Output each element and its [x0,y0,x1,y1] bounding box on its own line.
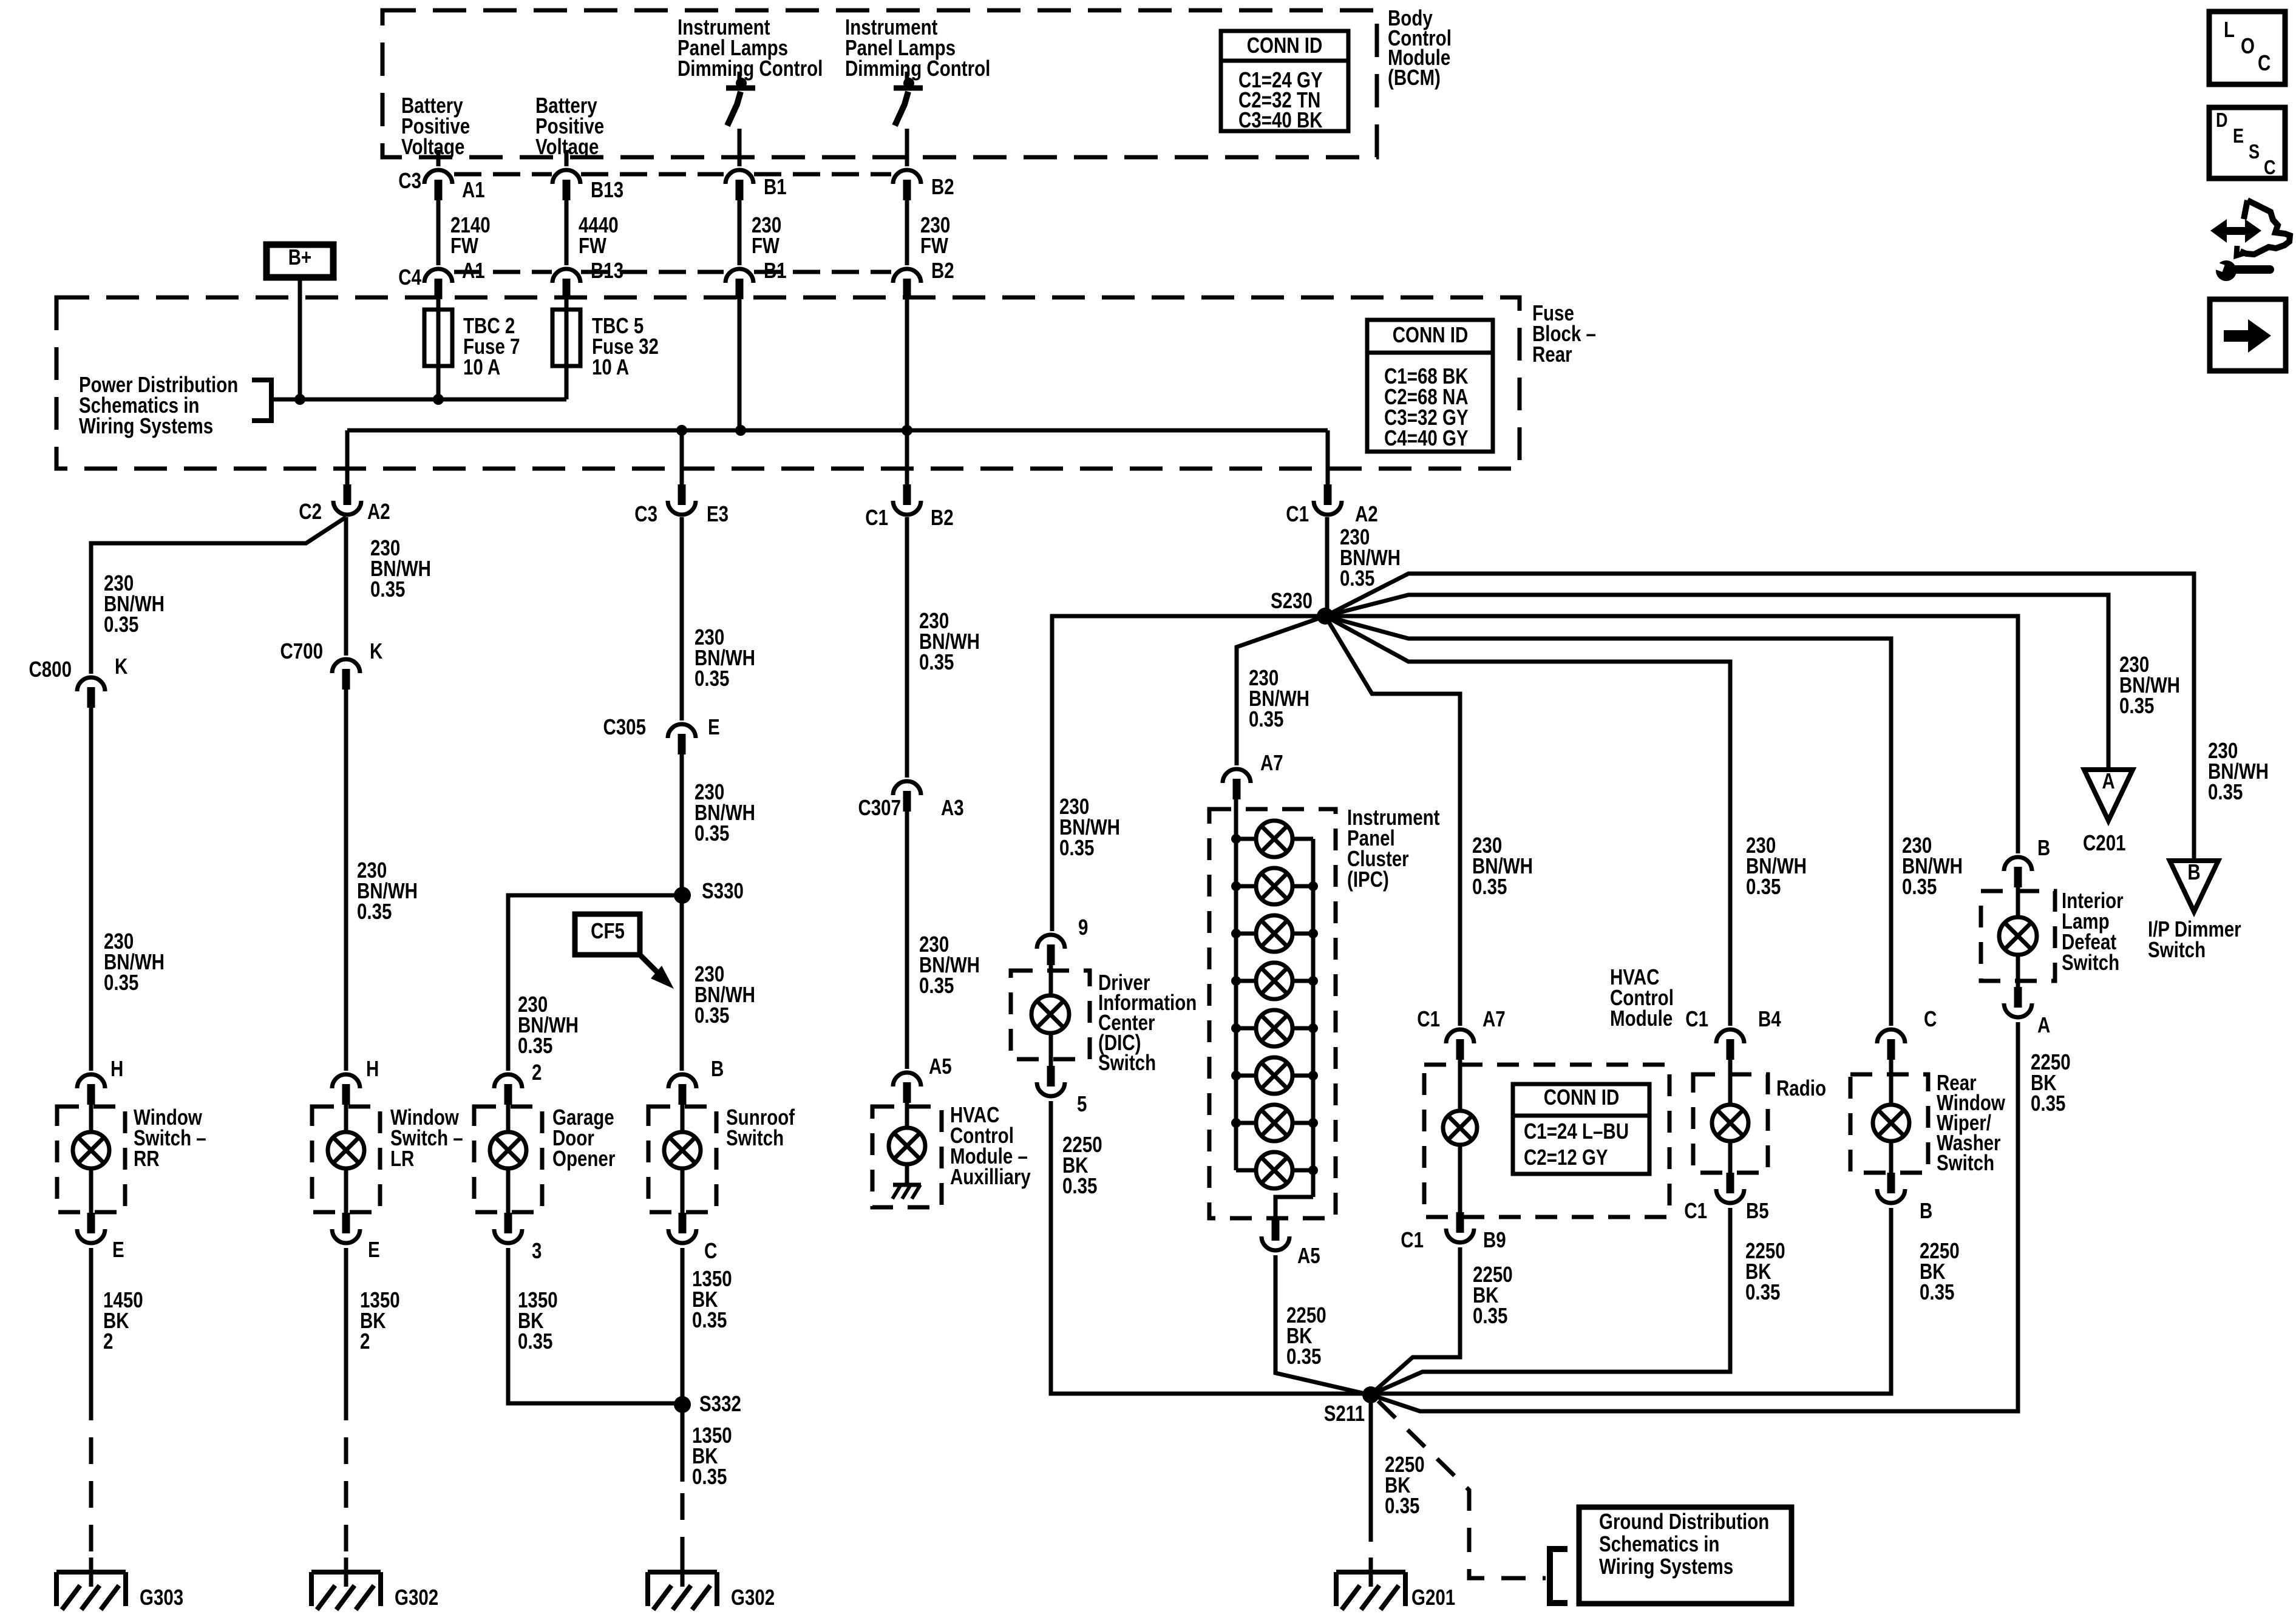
connector row C4 dashed line [454,270,552,274]
Instrument Panel Cluster (IPC) dashed box [1209,809,1336,1218]
svg-text:C1: C1 [1417,1006,1440,1031]
ground G302 (LR) [311,1558,381,1610]
svg-text:B1: B1 [764,258,787,282]
fuse CONN ID table [1367,320,1493,452]
DESC icon box [2209,107,2285,178]
svg-text:C1: C1 [1286,501,1309,526]
svg-text:LR: LR [390,1146,415,1170]
wire dashed to G201 [1369,1515,1373,1564]
Driver Information Center (DIC) switch dashed box [1011,971,1090,1059]
junction at B+ wire [294,394,305,405]
connector C1 pin B2 [903,484,911,505]
svg-text:B1: B1 [764,174,787,198]
svg-text:E: E [708,714,720,739]
svg-text:0.35: 0.35 [370,577,405,601]
Interior Lamp Defeat Switch dashed box [1981,891,2055,981]
svg-text:G303: G303 [140,1585,183,1609]
svg-text:Switch: Switch [1098,1050,1156,1074]
wire 2250 BK from radio B5 to S211 [1370,1208,1730,1395]
connector row C3 dashed line [454,172,552,177]
connector C1 pin B5 (radio) [1727,1173,1734,1193]
svg-text:0.35: 0.35 [1902,874,1937,898]
svg-text:B13: B13 [591,177,623,202]
junction to E3 [676,425,687,436]
wire A2 to C700 [344,517,348,656]
dashed wire to ground distribution note [1378,1401,1546,1578]
wire S230 to interior lamp defeat switch [1325,616,2018,853]
svg-text:0.35: 0.35 [695,1003,729,1027]
HVAC Control Module dashed box [1424,1065,1669,1217]
IPC left lamp bus [1234,799,1238,1170]
svg-text:B+: B+ [288,245,312,269]
svg-text:2: 2 [360,1329,370,1353]
connector C3 pin B2 [893,170,921,184]
splice S332 [674,1396,691,1413]
forward arrow icon box [2210,299,2286,371]
connector C1 pin B9 (HVAC CM) [1456,1212,1464,1233]
svg-text:S330: S330 [702,878,744,903]
LOC icon box [2209,12,2285,84]
svg-text:A2: A2 [367,499,390,523]
wire 2250 BK from S211 to G201 [1369,1395,1373,1515]
wire C305 to sunroof switch [680,754,684,1071]
wire S230 to radio [1325,616,1730,1026]
lamp IPC 6 [1256,1057,1292,1094]
svg-text:B: B [2037,835,2050,859]
svg-text:Rear: Rear [1532,342,1572,366]
svg-text:C800: C800 [29,657,72,681]
svg-text:Dimming Control: Dimming Control [845,56,990,80]
svg-text:S230: S230 [1271,588,1313,612]
svg-text:0.35: 0.35 [1472,874,1507,898]
wire 2250 BK from wiper B to S211 [1371,1208,1891,1394]
svg-text:E: E [368,1237,380,1261]
svg-text:B: B [1920,1198,1932,1222]
connector C1 pin A2 [1324,484,1332,505]
ground G303 [56,1558,126,1610]
wire S230 to HVAC control module [1325,616,1460,1026]
wire S230 to IPC A7 [1237,616,1325,765]
wire B2 to C307 [905,517,909,778]
lamp IPC 5 [1256,1010,1292,1046]
connector pin A5 (HVAC aux) [893,1073,921,1086]
svg-text:2: 2 [103,1329,113,1353]
svg-text:Switch: Switch [2148,937,2206,961]
svg-text:B13: B13 [591,258,623,282]
svg-text:0.35: 0.35 [1745,1280,1780,1304]
vehicle/wrench icon [2210,200,2290,281]
wire A2 down to S230 [1325,517,1330,616]
wire C800 K to window switch RR [89,708,93,1071]
svg-text:C: C [2258,50,2271,75]
svg-text:A7: A7 [1483,1006,1506,1031]
svg-text:A2: A2 [1355,501,1378,526]
wire from C2/A2 to window switch RR column [91,517,346,674]
svg-text:Module: Module [1610,1006,1673,1030]
svg-text:C3=40 BK: C3=40 BK [1238,107,1323,132]
connector pin A7 (IPC) [1223,769,1251,783]
wire dashed to G303 [89,1394,93,1558]
svg-text:G302: G302 [395,1585,438,1609]
wire through TBC 2 Fuse 7 [436,299,441,399]
connector C4 pin B2 [893,269,921,283]
svg-text:C2=12 GY: C2=12 GY [1524,1145,1608,1169]
svg-text:5: 5 [1077,1091,1087,1116]
connector C3 pin B13 [552,170,580,184]
svg-text:O: O [2241,33,2255,58]
svg-text:C1: C1 [1685,1006,1708,1031]
off-page connector B / I/P Dimmer Switch [2170,861,2218,912]
svg-text:S: S [2249,141,2260,163]
svg-text:Switch: Switch [726,1125,784,1150]
svg-text:C3: C3 [634,501,657,526]
wire from B+ to bus [298,277,302,399]
svg-text:A1: A1 [462,177,485,202]
svg-text:Opener: Opener [552,1146,615,1170]
svg-text:0.35: 0.35 [1746,874,1781,898]
lamp HVAC Control Module Auxilliary [889,1128,925,1164]
svg-text:A1: A1 [462,258,485,282]
lamp interior lamp defeat switch [1999,917,2037,955]
junction at B2 wire [902,425,912,436]
svg-text:0.35: 0.35 [919,973,954,997]
wire drop to C2/A2 [345,430,350,486]
svg-text:0.35: 0.35 [104,612,138,636]
svg-text:G201: G201 [1411,1585,1455,1609]
IPC bus to A5 exit [1275,1197,1313,1220]
svg-text:C201: C201 [2083,830,2126,855]
svg-text:10 A: 10 A [592,354,629,379]
BCM CONN ID table [1221,31,1348,131]
svg-text:FW: FW [450,233,479,257]
wire 1350 BK sunroof to S332 [681,1248,685,1482]
off-page connector A / C201 [2084,770,2133,821]
svg-text:S211: S211 [1324,1401,1365,1425]
svg-text:FW: FW [752,233,780,257]
svg-text:CONN ID: CONN ID [1247,33,1323,57]
wire B2 down through fuse box [905,299,909,486]
fuse TBC 2 Fuse 7 10 A [424,310,452,366]
svg-text:A5: A5 [929,1054,952,1078]
wire S230 to rear window wiper switch [1325,616,1891,1026]
splice S230 [1317,608,1334,625]
splice S211 [1362,1386,1379,1403]
connector C4 pin B1 [725,269,753,283]
svg-text:Dimming Control: Dimming Control [678,56,823,80]
svg-text:CONN ID: CONN ID [1393,322,1469,347]
svg-text:0.35: 0.35 [692,1307,727,1332]
lamp radio [1712,1105,1748,1141]
svg-text:CONN ID: CONN ID [1544,1085,1620,1109]
svg-text:A3: A3 [941,795,964,819]
svg-text:G302: G302 [731,1585,775,1609]
connector C700 pin K [332,659,360,673]
svg-text:Radio: Radio [1776,1076,1826,1100]
bus wire fuse block outputs [347,429,1328,433]
svg-text:0.35: 0.35 [695,821,729,845]
window switch RR with lamp [57,1074,125,1243]
ground G201 [1336,1558,1405,1610]
svg-text:Schematics in: Schematics in [1599,1531,1719,1556]
ground G302 (sunroof) [648,1558,717,1610]
junction at Fuse 7 output [433,394,444,405]
wire 1450 BK from window switch RR [89,1248,93,1394]
wire dashed to G302 (sunroof) [681,1493,685,1558]
connector pin A (interior lamp defeat) [2014,987,2022,1008]
wire 2250 BK from defeat switch A to S211 [1371,1022,2018,1411]
Radio dashed box [1693,1074,1768,1173]
wire B13 stub from Battery Positive Voltage [565,150,569,166]
svg-text:Switch: Switch [2062,950,2119,974]
splice S330 [674,887,691,904]
svg-text:0.35: 0.35 [2031,1091,2065,1115]
wire through TBC 5 Fuse 32 [565,299,569,399]
fuse TBC 5 Fuse 32 10 A [552,310,580,366]
svg-text:S332: S332 [699,1391,741,1415]
B+ box [267,245,333,277]
svg-text:B5: B5 [1746,1198,1769,1222]
svg-text:C: C [2264,157,2276,179]
svg-text:A: A [2037,1012,2050,1037]
svg-text:(IPC): (IPC) [1347,867,1389,891]
wire dashed to G302 (LR) [344,1394,348,1558]
svg-text:E: E [2233,126,2244,147]
svg-text:RR: RR [134,1146,160,1170]
connector pin 9 (DIC) [1037,935,1065,949]
svg-text:0.35: 0.35 [1059,835,1094,859]
svg-text:0.35: 0.35 [518,1033,552,1057]
svg-text:C1: C1 [1401,1227,1424,1252]
lamp IPC 7 [1256,1105,1292,1141]
wire 1350 BK garage to S332 [508,1248,682,1403]
svg-text:Voltage: Voltage [401,134,464,158]
wire A1 stub from Battery Positive Voltage [436,150,441,166]
svg-text:A: A [2102,768,2114,793]
svg-text:CF5: CF5 [591,918,625,943]
lamp HVAC control module [1443,1111,1477,1145]
svg-text:A5: A5 [1297,1243,1320,1267]
svg-text:0.35: 0.35 [2119,693,2154,717]
svg-text:0.35: 0.35 [1062,1173,1097,1198]
svg-text:Ground Distribution: Ground Distribution [1599,1509,1769,1533]
svg-text:C: C [704,1238,717,1263]
Body Control Module (BCM) dashed box [382,10,1377,157]
bracket to Power Distribution Schematics [252,380,271,421]
wire 230 FW (B2) [905,200,909,265]
svg-text:C1: C1 [1684,1198,1707,1222]
svg-text:B4: B4 [1758,1006,1781,1031]
svg-text:Wiring Systems: Wiring Systems [79,413,213,438]
wire C307 to HVAC aux [905,812,909,1069]
svg-text:Auxilliary: Auxilliary [950,1164,1031,1188]
connector pin C (wiper switch) [1877,1029,1905,1043]
connector C3 pin E3 [678,484,686,505]
CF5 callout box with arrow [575,914,640,955]
svg-text:(BCM): (BCM) [1388,65,1441,89]
svg-text:0.35: 0.35 [919,649,954,674]
svg-text:FW: FW [920,233,949,257]
svg-text:0.35: 0.35 [104,970,138,994]
wire E3 to C305 [680,517,684,720]
wire S330 to garage door opener [508,895,682,1071]
lamp IPC 3 [1256,915,1292,952]
wire 4440 FW [565,200,569,265]
window switch LR with lamp [312,1074,380,1243]
Rear Window Wiper/Washer Switch dashed box [1850,1074,1928,1173]
lamp IPC 2 [1256,868,1292,904]
wire 230 FW (B1) [738,200,742,265]
svg-text:0.35: 0.35 [1920,1280,1954,1304]
svg-text:9: 9 [1078,915,1088,939]
svg-text:C4=40 GY: C4=40 GY [1384,425,1469,450]
svg-text:0.35: 0.35 [2208,779,2243,804]
connector C1 pin A7 (HVAC CM) [1446,1029,1474,1043]
Ground Distribution Schematics note box [1579,1507,1792,1604]
wire 2140 FW [436,200,441,265]
svg-text:C1=24 L–BU: C1=24 L–BU [1524,1119,1629,1143]
wire S230 to DIC switch [1052,616,1325,931]
junction at B1 wire [735,425,746,436]
lamp rear window wiper/washer switch [1873,1105,1909,1141]
wire 2250 BK from DIC to S211 [1051,1101,1371,1394]
Fuse Block - Rear dashed box [56,297,1520,469]
wire drop to C1/A2 [1326,430,1330,486]
svg-text:0.35: 0.35 [1473,1303,1507,1327]
svg-text:2: 2 [532,1060,542,1084]
svg-text:Wiring Systems: Wiring Systems [1599,1554,1733,1578]
chassis ground inside HVAC aux [893,1183,921,1187]
wire drop to C3/E3 [680,430,684,486]
svg-text:C1: C1 [865,505,888,529]
HVAC CM CONN ID table [1513,1084,1649,1174]
wire 2250 BK from HVAC CM B9 to S211 [1370,1247,1460,1395]
svg-text:H: H [366,1056,379,1080]
connector pin B (interior lamp defeat) [2004,857,2032,871]
connector pin 5 (DIC) [1047,1066,1055,1086]
lamp IPC 8 [1256,1152,1292,1188]
lamp DIC switch [1031,995,1069,1033]
connector C305 pin E [668,724,696,738]
svg-text:K: K [370,639,383,663]
connector C3 pin A1 [424,170,452,184]
svg-text:0.35: 0.35 [518,1329,552,1353]
svg-text:B9: B9 [1483,1227,1506,1252]
svg-text:A7: A7 [1260,750,1283,775]
dimmer switch symbol B2 (Instrument Panel Lamps Dimming Control) [894,72,923,166]
svg-text:0.35: 0.35 [695,666,729,690]
wire C700 K to window switch LR [344,690,348,1071]
svg-text:C305: C305 [603,714,646,739]
wire 2250 BK from IPC A5 to S211 [1275,1255,1370,1395]
svg-text:0.35: 0.35 [1249,707,1283,731]
connector C4 pin A1 [424,269,452,283]
svg-text:B: B [711,1056,724,1080]
svg-text:E: E [112,1237,124,1261]
svg-text:Switch: Switch [1937,1150,1994,1175]
lamp IPC 4 [1256,963,1292,999]
svg-text:FW: FW [579,233,607,257]
IPC right lamp bus [1311,839,1316,1197]
bus wire from Power Distribution to fuses [271,398,566,402]
svg-text:K: K [115,654,128,678]
svg-text:D: D [2216,110,2228,132]
lamp IPC 1 [1256,821,1292,857]
bracket to ground distribution box [1550,1549,1567,1603]
connector pin A5 (IPC) [1272,1220,1280,1241]
connector C307 pin A3 [893,781,921,795]
svg-text:L: L [2224,17,2235,41]
svg-text:B2: B2 [931,258,954,282]
connector pin B (wiper switch) [1887,1173,1895,1193]
HVAC Control Module - Auxilliary dashed box [872,1107,942,1207]
svg-text:10 A: 10 A [463,354,500,379]
svg-text:H: H [110,1056,123,1080]
svg-text:C700: C700 [280,639,323,663]
sunroof switch with lamp [648,1074,716,1243]
svg-text:C2: C2 [299,499,322,523]
connector C2 pin A2 [344,484,352,505]
svg-text:B: B [2187,859,2200,884]
connector C4 pin B13 [552,269,580,283]
wire S230 to C201 A [1325,595,2108,767]
wire 1350 BK from window switch LR [344,1248,348,1394]
svg-text:0.35: 0.35 [692,1464,727,1488]
svg-text:0.35: 0.35 [1340,566,1374,590]
connector C1 pin B4 (radio) [1716,1029,1744,1043]
svg-text:E3: E3 [707,501,729,526]
connector C3 pin B1 [725,170,753,184]
wire B1 down to bus [738,299,742,430]
svg-text:0.35: 0.35 [357,899,392,923]
wire S230 to I/P dimmer switch B [1325,574,2194,858]
svg-text:C4: C4 [398,265,421,289]
svg-text:C: C [1924,1006,1937,1031]
svg-text:3: 3 [532,1238,542,1263]
svg-text:B2: B2 [931,174,954,198]
svg-text:C307: C307 [858,795,901,819]
svg-text:B2: B2 [931,505,954,529]
svg-text:C3: C3 [398,168,421,192]
connector C800 pin K [77,677,105,691]
dimmer switch symbol B1 (Instrument Panel Lamps Dimming Control) [726,72,755,166]
svg-text:0.35: 0.35 [1385,1493,1419,1517]
garage door opener with lamp [474,1074,542,1243]
svg-text:0.35: 0.35 [1286,1344,1321,1368]
